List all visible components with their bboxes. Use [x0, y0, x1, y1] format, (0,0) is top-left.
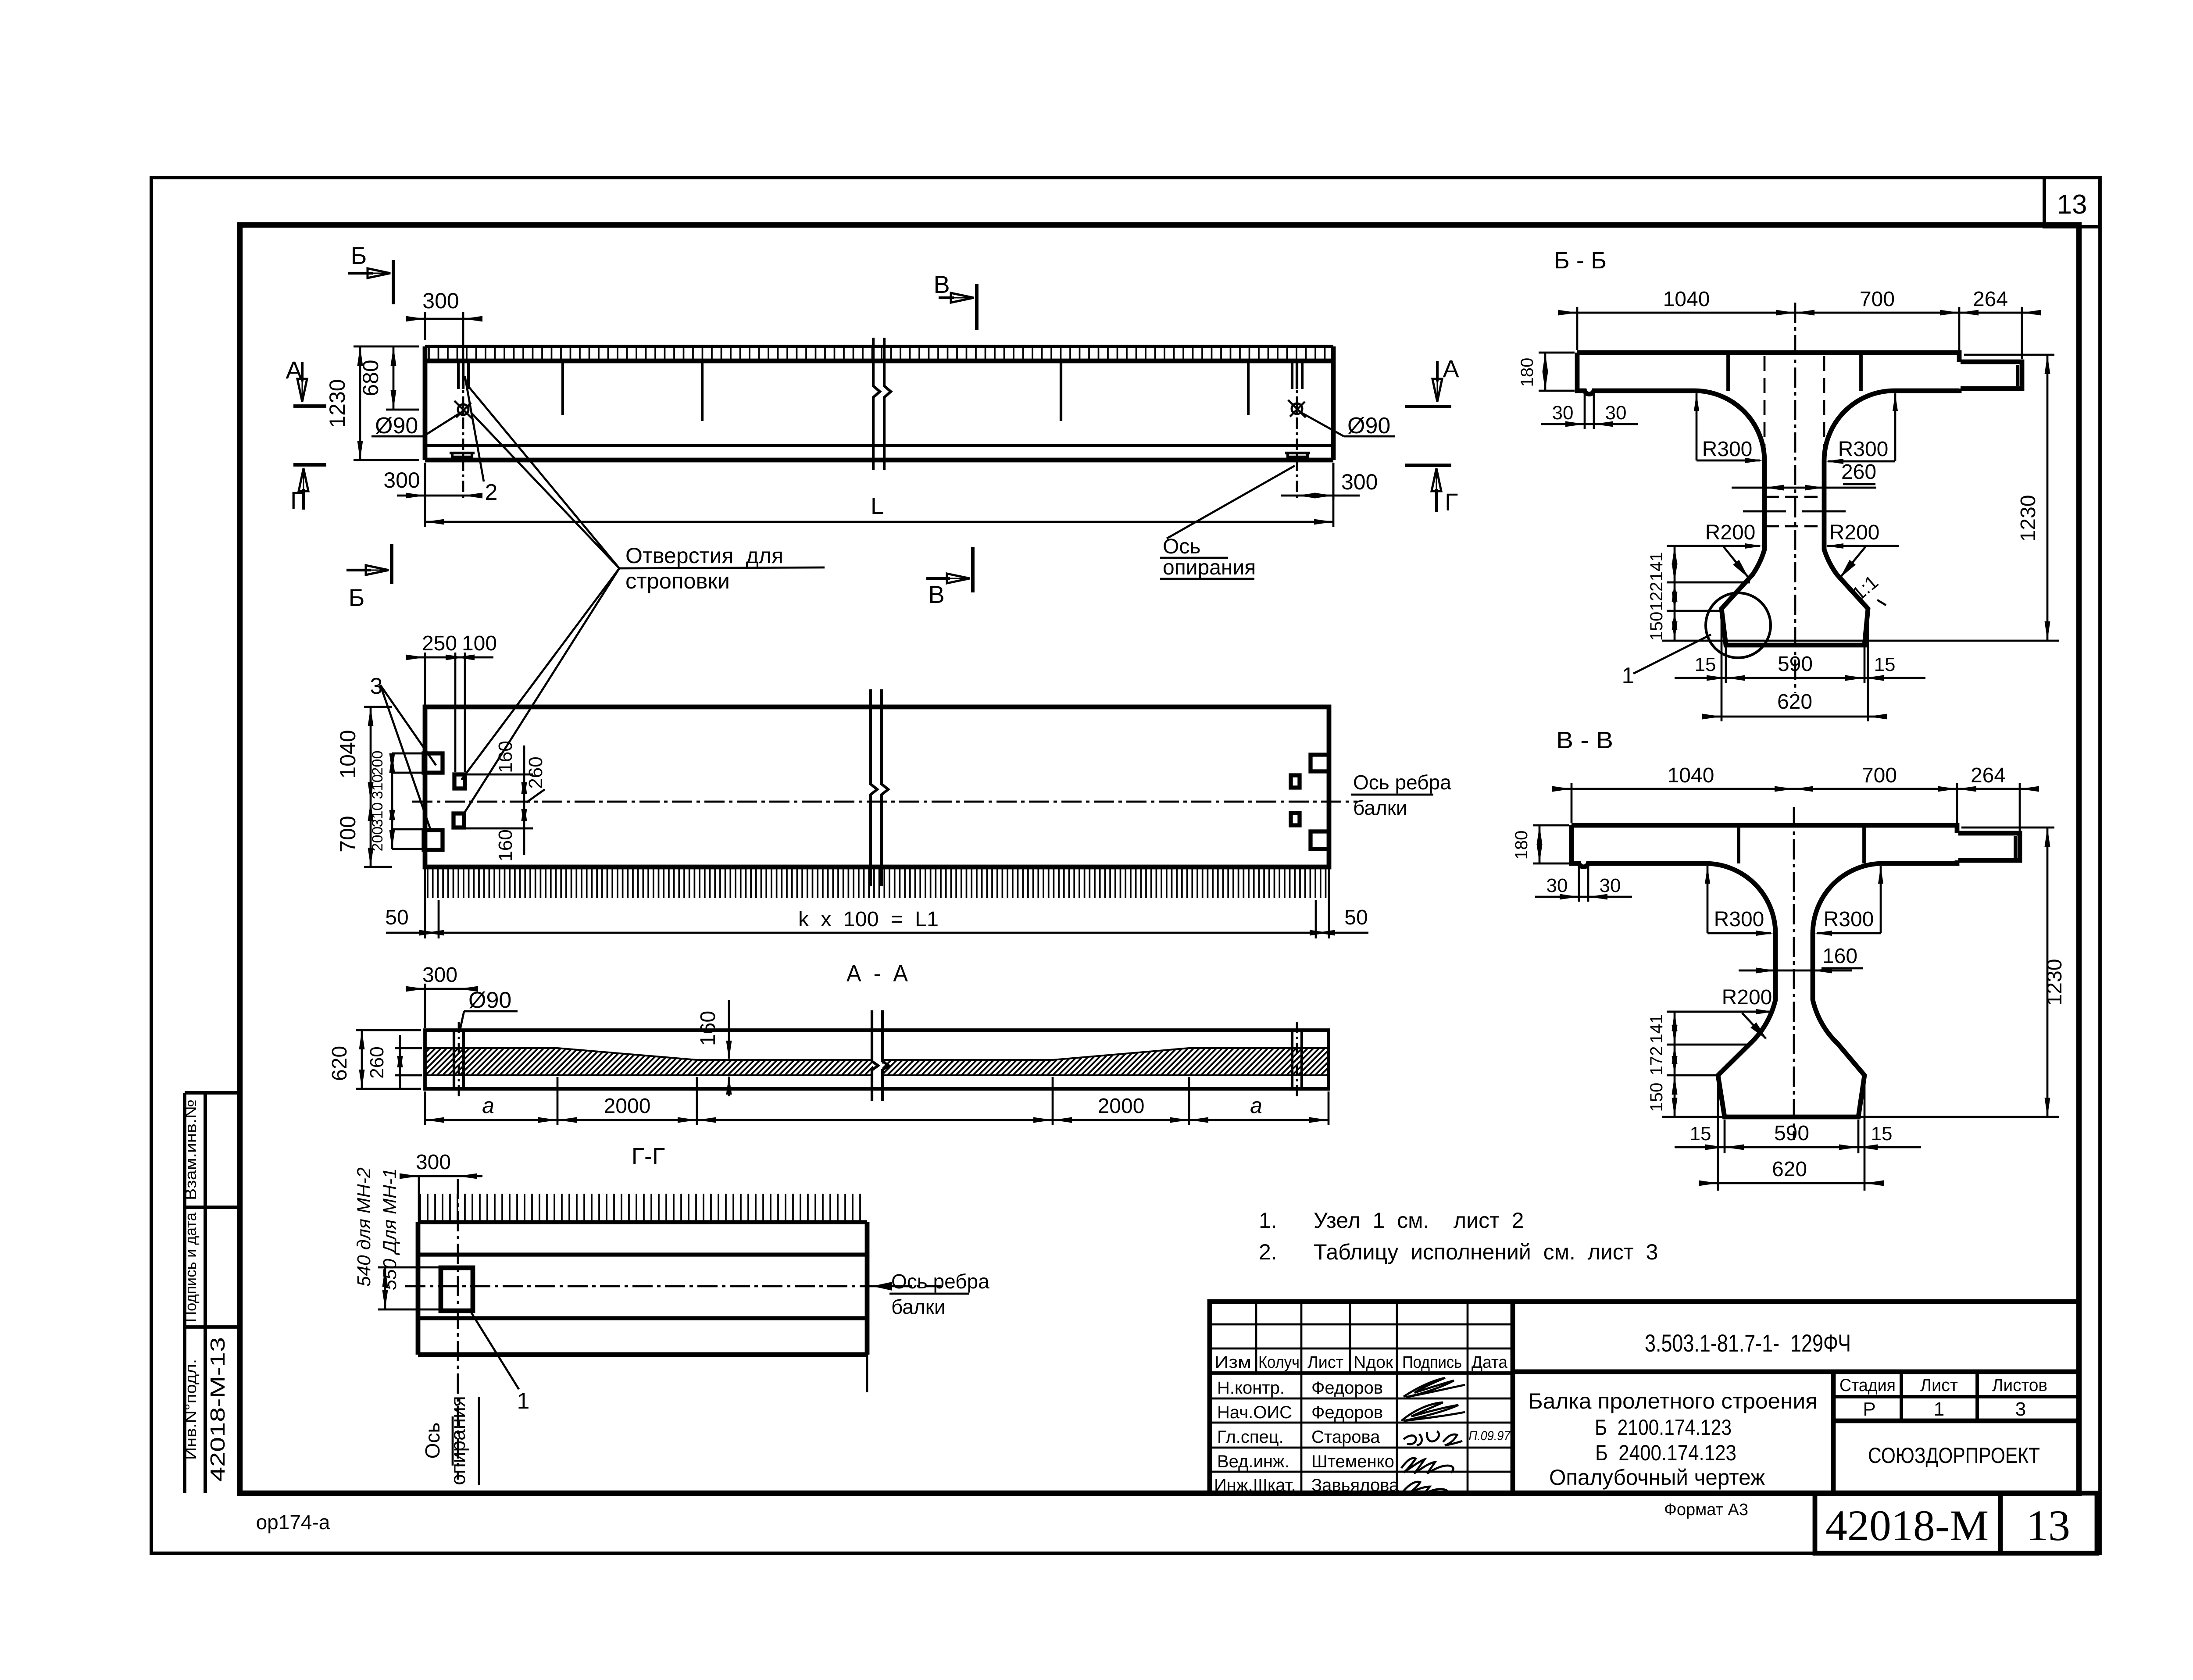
svg-text:Ось: Ось [421, 1423, 444, 1459]
A-A dim 160 [728, 1000, 730, 1059]
В-В dims 15 590 15 [1724, 1120, 1726, 1153]
Б-Б dim 1230 [1964, 354, 2054, 356]
svg-text:42018-М: 42018-М [1825, 1501, 1989, 1550]
svg-text:Б: Б [351, 242, 367, 269]
svg-text:42018-М-13: 42018-М-13 [206, 1337, 229, 1482]
svg-text:Ось ребра: Ось ребра [891, 1270, 989, 1293]
Г-Г dim bracket [378, 1266, 442, 1269]
section marker Г right [1405, 464, 1451, 467]
svg-text:620: 620 [328, 1046, 351, 1081]
svg-text:15: 15 [1690, 1123, 1711, 1145]
svg-text:264: 264 [1973, 288, 2008, 311]
svg-text:1230: 1230 [2017, 495, 2040, 542]
svg-text:50: 50 [1344, 906, 1368, 929]
A-A dim 300 [424, 984, 426, 1028]
svg-text:300: 300 [1341, 470, 1378, 494]
svg-text:250: 250 [422, 632, 457, 655]
dim L bottom [424, 463, 426, 527]
svg-text:Опалубочный чертеж: Опалубочный чертеж [1549, 1465, 1765, 1490]
svg-text:1. Узел 1 см. лист: 1. Узел 1 см. лист 2 [1259, 1208, 1524, 1233]
svg-text:Р: Р [1863, 1398, 1875, 1420]
svg-text:Б 2100.174.123: Б 2100.174.123 [1595, 1415, 1732, 1440]
svg-text:СОЮЗДОРПРОЕКТ: СОЮЗДОРПРОЕКТ [1868, 1443, 2040, 1468]
svg-text:1040: 1040 [1668, 764, 1714, 787]
svg-text:Гл.спец.: Гл.спец. [1217, 1427, 1284, 1447]
Б-Б dims 15 590 15 [1725, 643, 1727, 683]
svg-text:R200: R200 [1829, 521, 1880, 544]
dim 680 left [386, 409, 419, 411]
svg-text:1: 1 [517, 1388, 530, 1414]
A-A: outline [425, 1030, 1329, 1089]
Г-Г: vertical axis line [457, 1179, 459, 1480]
svg-text:680: 680 [358, 360, 383, 396]
Б-Б: hidden web edges dashed [1764, 356, 1766, 459]
svg-text:Колуч: Колуч [1258, 1353, 1300, 1372]
plan: bottom dim k x 100 = L1 with 50 ends [424, 869, 426, 938]
svg-text:180: 180 [1518, 358, 1537, 387]
svg-text:Ø90: Ø90 [468, 988, 511, 1013]
svg-text:Н.контр.: Н.контр. [1217, 1378, 1285, 1398]
svg-text:200: 200 [369, 827, 386, 852]
svg-text:1040: 1040 [336, 730, 360, 778]
A-A: right hole [1291, 1030, 1293, 1089]
svg-text:Изм: Изм [1214, 1353, 1251, 1372]
svg-text:13: 13 [2057, 189, 2087, 220]
Г-Г: outline lines [418, 1220, 867, 1224]
svg-text:1230: 1230 [325, 379, 350, 428]
svg-text:опирания: опирания [446, 1396, 469, 1485]
svg-text:строповки: строповки [625, 569, 730, 593]
svg-text:141: 141 [1647, 552, 1666, 581]
svg-text:L: L [871, 493, 884, 519]
dim 300 bottom-left [424, 463, 426, 500]
svg-text:590: 590 [1774, 1122, 1809, 1145]
svg-text:Взам.инв.№: Взам.инв.№ [182, 1099, 200, 1200]
svg-text:100: 100 [462, 632, 497, 655]
Б-Б bottom baseline [1662, 640, 2059, 642]
title cell divider [1831, 1372, 1836, 1493]
svg-text:Инж.IIIкат.: Инж.IIIкат. [1214, 1476, 1296, 1495]
В-В dim 1230 [1961, 827, 2054, 829]
svg-text:50: 50 [385, 906, 408, 929]
svg-text:В: В [933, 271, 950, 298]
svg-text:Г: Г [1445, 488, 1458, 516]
svg-text:180: 180 [1512, 831, 1531, 860]
Б-Б: beam cross-section outline [1577, 353, 1959, 645]
svg-text:620: 620 [1777, 690, 1812, 713]
svg-text:Завьялова: Завьялова [1311, 1476, 1399, 1495]
svg-text:Ось ребра: Ось ребра [1353, 771, 1451, 794]
В-В: centerline [1793, 807, 1795, 1140]
svg-text:700: 700 [336, 816, 360, 852]
Б-Б left dim chain 141 122 150 [1667, 581, 1750, 584]
svg-text:R300: R300 [1838, 438, 1889, 461]
svg-text:13: 13 [2026, 1501, 2070, 1550]
plan: outline [425, 707, 1329, 867]
В-В: beam cross-section outline [1572, 825, 1957, 1117]
section marker Г left [293, 463, 326, 467]
svg-text:1: 1 [1934, 1398, 1944, 1420]
svg-text:Нач.ОИС: Нач.ОИС [1217, 1403, 1292, 1422]
svg-text:П.09.97: П.09.97 [1469, 1429, 1511, 1443]
svg-text:опирания: опирания [1163, 556, 1256, 579]
left attachment strip [183, 1093, 186, 1493]
Б-Б dims 1040 700 264 [1576, 307, 1579, 350]
svg-text:160: 160 [1822, 945, 1857, 968]
svg-text:Лист: Лист [1920, 1376, 1958, 1395]
svg-text:540 для МН-2: 540 для МН-2 [354, 1167, 375, 1287]
svg-text:Ø90: Ø90 [375, 413, 418, 439]
stadia rows [1833, 1395, 2079, 1398]
svg-text:Федоров: Федоров [1311, 1378, 1383, 1398]
A-A: break symbol [873, 1033, 882, 1085]
Б-Б: centerline [1794, 303, 1797, 693]
signature scribbles [1404, 1378, 1465, 1397]
Б-Б dim 620 [1721, 612, 1723, 721]
svg-text:2000: 2000 [1098, 1095, 1145, 1118]
svg-text:15: 15 [1874, 654, 1896, 675]
svg-text:Г-Г: Г-Г [632, 1143, 665, 1170]
Б-Б: right slab extension [1961, 362, 2022, 389]
Б-Б dim 30 30 [1584, 393, 1586, 429]
A-A: left hole [453, 1030, 455, 1089]
svg-text:Ø90: Ø90 [1347, 413, 1390, 439]
svg-text:172: 172 [1647, 1046, 1666, 1076]
Г-Г: top hatch [420, 1194, 860, 1221]
svg-text:264: 264 [1971, 764, 2006, 787]
svg-text:балки: балки [1353, 796, 1407, 819]
svg-text:2: 2 [485, 480, 498, 505]
svg-text:150: 150 [1647, 612, 1666, 641]
svg-text:260: 260 [366, 1046, 388, 1078]
В-В: right slab extension [1958, 833, 2020, 860]
svg-text:30: 30 [1600, 875, 1621, 896]
svg-text:700: 700 [1860, 288, 1895, 311]
svg-text:R200: R200 [1722, 986, 1772, 1009]
elevation: top slab hatch [429, 348, 1325, 360]
svg-text:Лист: Лист [1307, 1353, 1343, 1372]
В-В left dim chain 141 172 150 [1667, 1011, 1772, 1013]
svg-text:Вед.инж.: Вед.инж. [1217, 1452, 1289, 1471]
plan: left dim chain 200 310 310 200 [392, 753, 443, 755]
svg-text:1: 1 [1622, 663, 1635, 688]
svg-text:Формат А3: Формат А3 [1664, 1501, 1748, 1519]
elevation: beam outline [425, 345, 1333, 348]
plan: corner notches [424, 753, 443, 773]
svg-text:Балка пролетного строения: Балка пролетного строения [1528, 1389, 1818, 1413]
svg-text:300: 300 [383, 468, 420, 492]
В-В dim 180 [1533, 824, 1569, 827]
svg-text:590: 590 [1778, 653, 1813, 676]
svg-text:А: А [1443, 355, 1459, 382]
svg-text:R300: R300 [1702, 438, 1753, 461]
svg-text:300: 300 [422, 289, 459, 313]
svg-text:Инв.N°подл.: Инв.N°подл. [182, 1359, 200, 1460]
svg-text:R300: R300 [1714, 908, 1764, 931]
svg-text:Г: Г [290, 486, 304, 514]
svg-text:R200: R200 [1705, 521, 1756, 544]
svg-text:Подпись и дата: Подпись и дата [182, 1212, 200, 1322]
plan: dims 160/260 near holes [466, 774, 533, 776]
Б-Б: web break marks [1766, 496, 1823, 498]
plan: centerline [412, 801, 1357, 803]
svg-text:Б - Б: Б - Б [1554, 247, 1607, 274]
dim 300 top-left [424, 312, 426, 340]
svg-text:3: 3 [2015, 1398, 2026, 1420]
svg-text:30: 30 [1552, 402, 1574, 424]
Г-Г: horizontal centerline [405, 1285, 941, 1288]
Б-Б: slab verticals [1726, 353, 1730, 391]
svg-text:700: 700 [1862, 764, 1897, 787]
svg-text:260: 260 [525, 756, 546, 788]
dim 300 bottom-right [1332, 463, 1335, 500]
svg-text:260: 260 [1841, 460, 1876, 484]
svg-text:В - В: В - В [1556, 727, 1613, 753]
svg-text:141: 141 [1647, 1014, 1666, 1044]
svg-text:a: a [482, 1093, 494, 1118]
В-В dims 1040 700 264 [1571, 783, 1573, 823]
svg-text:160: 160 [495, 829, 516, 861]
plan: break symbol [871, 689, 877, 886]
svg-text:15: 15 [1871, 1123, 1893, 1145]
В-В: slab verticals [1737, 825, 1740, 863]
svg-text:Дата: Дата [1472, 1353, 1508, 1372]
A-A bottom dim chain a 2000 2000 a [424, 1091, 426, 1125]
svg-text:ор174-а: ор174-а [256, 1511, 330, 1534]
svg-text:2000: 2000 [604, 1095, 651, 1118]
title block outer box [1210, 1302, 2079, 1493]
plan: lifting holes [454, 774, 465, 788]
doc number cell bottom line [1513, 1370, 2079, 1374]
svg-text:a: a [1250, 1093, 1262, 1118]
Б-Б dim 180 [1539, 352, 1575, 354]
svg-text:30: 30 [1605, 402, 1627, 424]
svg-text:Старова: Старова [1311, 1427, 1380, 1447]
svg-text:В: В [928, 581, 944, 608]
svg-text:300: 300 [422, 963, 457, 987]
svg-text:3.503.1-81.7-1- 129ФЧ: 3.503.1-81.7-1- 129ФЧ [1645, 1329, 1851, 1357]
elevation: break symbol [873, 338, 880, 470]
svg-text:160: 160 [495, 741, 516, 773]
svg-text:122: 122 [1647, 582, 1666, 611]
Г-Г: bearing pad [441, 1268, 473, 1311]
svg-text:1040: 1040 [1663, 288, 1710, 311]
В-В dim 620 [1717, 1079, 1719, 1191]
svg-text:1230: 1230 [2043, 959, 2066, 1006]
svg-text:Б: Б [349, 584, 365, 611]
left table: name rows [1210, 1398, 1513, 1400]
В-В dim 30 30 [1578, 866, 1580, 902]
dim 1230 left [354, 346, 419, 348]
svg-text:А - А: А - А [846, 960, 908, 987]
elevation: right lifting hole [1291, 361, 1293, 389]
svg-text:Подпись: Подпись [1402, 1353, 1462, 1372]
dim 250 100 top of plan [424, 653, 426, 705]
sheet outer border frame [151, 178, 2100, 1553]
plan: bottom hatch [428, 869, 1326, 898]
A-A dim 260 left [395, 1047, 422, 1049]
svg-text:620: 620 [1772, 1158, 1807, 1181]
svg-text:Б 2400.174.123: Б 2400.174.123 [1595, 1441, 1736, 1465]
A-A dim 620 left [356, 1029, 421, 1031]
left table: column lines [1255, 1302, 1257, 1373]
svg-text:Стадия: Стадия [1839, 1376, 1896, 1395]
elevation: left lifting hole [457, 361, 460, 389]
svg-text:2. Таблицу исполнений с: 2. Таблицу исполнений см. лист 3 [1259, 1240, 1658, 1264]
svg-text:200: 200 [369, 751, 386, 776]
Г-Г dim 300 [418, 1176, 420, 1223]
svg-text:160: 160 [696, 1011, 720, 1046]
document number box 42018-М / 13 bottom-right [1815, 1493, 2097, 1553]
svg-text:k x 100 = L1: k x 100 = L1 [798, 908, 939, 931]
inner drawing frame [240, 225, 2079, 1493]
Б-Б detail circle узел 1 [1706, 593, 1771, 658]
svg-text:30: 30 [1547, 875, 1568, 896]
В-В bottom baseline [1662, 1116, 2059, 1118]
svg-text:150: 150 [1647, 1083, 1666, 1112]
svg-text:300: 300 [416, 1151, 451, 1174]
section marker Б bottom [390, 544, 393, 584]
elevation: left bearing pad [450, 453, 475, 457]
svg-text:балки: балки [891, 1295, 946, 1318]
svg-text:Nдок: Nдок [1354, 1353, 1393, 1372]
svg-text:R300: R300 [1824, 908, 1874, 931]
svg-text:Штеменко: Штеменко [1311, 1452, 1394, 1471]
section marker В bottom [971, 547, 975, 592]
sheet number box top-right [2044, 178, 2100, 227]
svg-text:Федоров: Федоров [1311, 1403, 1383, 1422]
title block vertical divider left-part/right-part [1511, 1302, 1515, 1493]
left table: empty revision rows [1210, 1323, 1513, 1326]
svg-text:15: 15 [1695, 654, 1716, 675]
plan: dim 1040 / 700 left [364, 706, 392, 708]
elevation: right bearing pad [1285, 453, 1310, 457]
elevation: web joint lines [561, 361, 564, 415]
svg-text:Отверстия для: Отверстия для [625, 543, 783, 568]
svg-text:Листов: Листов [1992, 1376, 2047, 1395]
svg-text:550 Для МН-1: 550 Для МН-1 [379, 1168, 400, 1290]
